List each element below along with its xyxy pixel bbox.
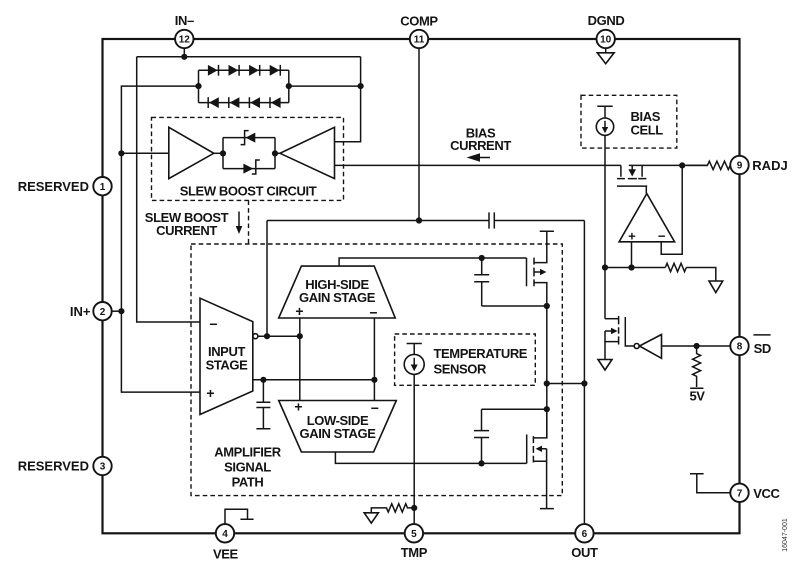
wire bias cell output down — [604, 135, 606, 318]
svg-text:6: 6 — [582, 529, 588, 540]
diode D8 bottom row — [270, 97, 281, 108]
node diode string left — [195, 83, 201, 89]
output mosfet M2 bottom (gate left) — [527, 409, 554, 508]
wire OUT line vertical — [583, 221, 585, 525]
wire IN- down-left to input stage minus input — [137, 57, 200, 322]
wire slew boost input — [121, 152, 168, 154]
svg-text:3: 3 — [100, 462, 106, 473]
junction dot bias vertical at node — [602, 264, 608, 270]
svg-text:OUT: OUT — [571, 545, 598, 560]
svg-text:PATH: PATH — [232, 475, 264, 490]
svg-text:RESERVED: RESERVED — [18, 179, 89, 194]
svg-text:4: 4 — [222, 529, 228, 540]
svg-text:GAIN STAGE: GAIN STAGE — [299, 290, 376, 305]
svg-text:2: 2 — [100, 307, 106, 318]
junction dot cap tap — [260, 377, 266, 383]
pin 1 RESERVED — [93, 177, 111, 195]
temperature sensor dashed box — [395, 334, 536, 385]
wire low-side output to bottom gate — [335, 452, 526, 463]
zener pair frame — [223, 138, 275, 169]
slew boost circuit dashed box — [152, 117, 344, 200]
svg-text:RADJ: RADJ — [752, 158, 787, 173]
diode D3 top row — [249, 65, 260, 76]
svg-text:7: 7 — [737, 489, 743, 500]
svg-text:−: − — [369, 305, 377, 321]
svg-text:+: + — [294, 399, 302, 415]
svg-text:VEE: VEE — [213, 546, 239, 561]
VEE rail bracket — [225, 509, 254, 524]
svg-text:+: + — [628, 228, 636, 243]
svg-text:16047-001: 16047-001 — [782, 518, 789, 552]
ground symbol at shutdown mosfet — [598, 360, 612, 371]
op-amp U2 bias regulator (points up) — [619, 194, 675, 242]
pin 12 IN- — [175, 30, 193, 48]
junction dot TMP resistor tap — [411, 505, 417, 511]
pin 4 VEE — [216, 524, 234, 542]
output mosfet M1 top (gate left) — [527, 231, 554, 306]
diode D6 bottom row — [229, 97, 240, 108]
diode string frame — [199, 70, 289, 102]
svg-text:SIGNAL: SIGNAL — [224, 460, 271, 475]
junction dot bottom drain node — [544, 406, 550, 412]
svg-text:TMP: TMP — [401, 545, 428, 560]
wire second output of input stage — [253, 379, 375, 381]
svg-text:AMPLIFIER: AMPLIFIER — [214, 445, 281, 460]
shutdown mosfet M4 (gate right) — [605, 316, 625, 360]
junction dot comp tie — [264, 333, 270, 339]
capacitor C1 compensation (series) — [489, 212, 494, 228]
junction dot gain node at plus column — [297, 333, 303, 339]
svg-text:12: 12 — [179, 35, 191, 46]
junction dot slew input — [118, 150, 124, 156]
junction dot bottom gate cap tap — [478, 460, 484, 466]
wire compensation node horizontal — [267, 220, 584, 222]
zener diode top (points left) — [241, 131, 256, 145]
pin 6 OUT — [575, 524, 593, 542]
pin 11 COMP — [410, 30, 428, 48]
chip outer border — [103, 39, 740, 533]
svg-text:TEMPERATURE: TEMPERATURE — [434, 346, 528, 361]
svg-text:COMP: COMP — [400, 13, 438, 28]
svg-text:GAIN STAGE: GAIN STAGE — [300, 426, 377, 441]
junction dot pin2 — [118, 308, 124, 314]
wire IN+ column to slew input and input stage plus input — [121, 153, 200, 392]
svg-text:CELL: CELL — [631, 123, 664, 138]
pin 7 VCC — [730, 484, 748, 502]
diode D2 top row — [229, 65, 240, 76]
junction dot out link — [544, 380, 550, 386]
svg-text:11: 11 — [414, 35, 425, 46]
junction dot top source node — [544, 303, 550, 309]
svg-text:1: 1 — [100, 182, 106, 193]
wire link to OUT line — [547, 383, 585, 385]
low-side gain stage trapezoid U6 — [279, 401, 397, 453]
svg-text:+: + — [206, 385, 214, 401]
capacitor C4 bottom bootstrap — [482, 409, 547, 463]
temperature sensor current source — [404, 354, 424, 374]
junction dot op-amp plus at node — [628, 264, 634, 270]
ground symbol below DGND pin — [605, 48, 607, 53]
resistor R3 pullup to 5V — [690, 346, 703, 388]
wire diode string left node to IN+ column — [121, 86, 198, 153]
wire minus column between gain stages — [373, 318, 375, 401]
svg-text:5: 5 — [411, 529, 417, 540]
node diode string right — [286, 83, 292, 89]
resistor R1 to RADJ pin — [682, 161, 730, 169]
svg-text:VCC: VCC — [753, 486, 780, 501]
wire high-side output tab to top gate — [339, 258, 526, 266]
junction dot OUT line link — [581, 380, 587, 386]
svg-text:SD: SD — [754, 341, 771, 356]
pin 9 RADJ — [730, 156, 748, 174]
inverter U3 with bubble — [625, 335, 730, 359]
high-side gain stage trapezoid U5 — [279, 266, 396, 318]
capacitor C2 at input stage output — [256, 380, 270, 429]
resistor R2 bias node to ground — [665, 263, 686, 271]
wire bias current line right segment — [629, 164, 708, 166]
svg-text:−: − — [209, 316, 217, 332]
svg-text:−: − — [371, 400, 379, 416]
junction dot pin12 stub — [181, 54, 187, 60]
junction dot 5V pullup — [694, 343, 700, 349]
diode D4 top row — [270, 65, 281, 76]
input stage trapezoid U4 — [200, 298, 253, 414]
wire output column — [546, 306, 548, 438]
wire temperature sensor to TMP pin — [413, 374, 415, 524]
junction dot diode-string right line — [358, 83, 364, 89]
diode D5 bottom row — [208, 97, 219, 108]
bias cell current source — [596, 118, 613, 135]
junction dot RADJ node — [679, 162, 685, 168]
wire plus column between gain stages — [299, 318, 301, 401]
wire pin2 stub — [112, 310, 122, 312]
pin 5 TMP — [405, 524, 423, 542]
zener diode bottom (points right) — [243, 160, 259, 174]
svg-text:CURRENT: CURRENT — [450, 138, 511, 153]
ground symbol at bias resistor — [709, 281, 723, 293]
VCC rail bracket — [690, 474, 730, 493]
diode D1 top row — [208, 65, 219, 76]
svg-text:9: 9 — [737, 161, 743, 172]
amplifier signal path dashed box — [191, 244, 562, 496]
slew boost current dashed drop — [248, 200, 250, 244]
wire first gain node — [258, 335, 300, 337]
svg-text:+: + — [295, 303, 303, 319]
capacitor C3 top bootstrap — [482, 258, 547, 306]
pin 10 DGND — [597, 30, 615, 48]
svg-text:DGND: DGND — [588, 13, 625, 28]
pin 3 RESERVED — [93, 457, 111, 475]
wire IN- horizontal bus y=56.8 — [137, 56, 361, 58]
resistor R4 TMP to ground — [371, 504, 414, 513]
bias current left arrow — [467, 153, 491, 162]
pin 8 SD — [730, 337, 748, 355]
wire bias reference node — [605, 268, 716, 282]
temperature sensor top T-bar — [407, 344, 422, 355]
bias cell dashed box — [581, 95, 677, 148]
wire left buffer output — [214, 152, 223, 154]
svg-text:SLEW BOOST CIRCUIT: SLEW BOOST CIRCUIT — [180, 184, 317, 199]
wire diode string right node to drop — [289, 85, 361, 87]
svg-text:SENSOR: SENSOR — [434, 362, 488, 377]
pin 2 IN+ — [93, 302, 111, 320]
wire op-amp plus input down — [631, 242, 633, 268]
slew boost current solid down arrow — [236, 212, 243, 235]
junction dot COMP node — [416, 217, 422, 223]
junction dot top gate cap tap — [479, 255, 485, 261]
junction dot zener left node — [220, 150, 226, 156]
svg-text:8: 8 — [737, 342, 743, 353]
junction dot zener right node — [272, 150, 278, 156]
input stage output bubble — [253, 334, 258, 339]
wire right drop from y=56.8 to slew buffer upper tap — [335, 57, 361, 142]
wire bias current line left segment — [335, 164, 621, 166]
wire op-amp minus feedback to RADJ node — [661, 165, 682, 254]
wire COMP pin drop — [418, 48, 420, 220]
wire zener right node to right buffer — [275, 152, 280, 154]
junction dot minus column tap — [371, 377, 377, 383]
wire comp node drop to first gain node — [266, 221, 268, 337]
svg-text:STAGE: STAGE — [206, 358, 249, 373]
svg-text:−: − — [658, 229, 666, 244]
bias cell top rail T-bar — [597, 106, 612, 118]
svg-text:RESERVED: RESERVED — [18, 459, 89, 474]
wire IN- pin stub — [183, 48, 185, 57]
buffer amp left triangle — [169, 127, 214, 178]
diode D7 bottom row — [249, 97, 260, 108]
svg-text:IN+: IN+ — [70, 304, 91, 319]
svg-text:IN–: IN– — [175, 13, 194, 28]
bias mosfet M3 in bias line (gate below) — [617, 165, 647, 193]
ground symbol at TMP resistor — [364, 513, 378, 523]
buffer amp right triangle (points left) — [280, 127, 335, 178]
svg-text:CURRENT: CURRENT — [156, 223, 217, 238]
svg-text:10: 10 — [600, 35, 612, 46]
svg-text:5V: 5V — [689, 389, 705, 404]
